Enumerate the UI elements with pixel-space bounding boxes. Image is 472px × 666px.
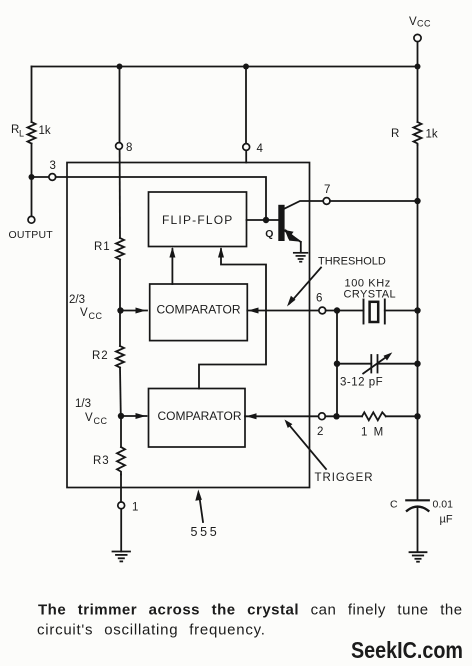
junction dot output node: [29, 174, 35, 180]
wire pin 2 trigger to comparator U2 (arrow into box): [245, 413, 319, 419]
pin 4 terminal: [243, 144, 250, 151]
junction dot 2/3 VCC node: [117, 307, 123, 313]
junction dot rail/pin4: [243, 64, 249, 70]
transistor Q base bar: [278, 205, 284, 241]
junction dot trimmer / right rail: [414, 361, 420, 367]
trimmer capacitor 3-12 pF: [371, 355, 377, 373]
label TRIGGER: [315, 472, 374, 484]
arrow THRESHOLD pointer: [287, 268, 321, 307]
wire pin6 node down to trimmer node: [336, 311, 338, 364]
crystal Y1 100 KHz: [364, 300, 385, 324]
555 IC boundary box: [67, 163, 310, 488]
svg-text:1k: 1k: [39, 125, 51, 137]
resistor R3: [117, 447, 125, 475]
wire output node down to OUTPUT terminal: [31, 177, 33, 216]
svg-text:3-12 pF: 3-12 pF: [340, 377, 383, 389]
svg-text:2/3: 2/3: [69, 294, 85, 306]
pin 7 terminal: [323, 198, 330, 205]
wire comparator U2 output to flip-flop (arrow): [199, 247, 266, 389]
svg-text:0.01: 0.01: [433, 499, 454, 511]
svg-text:circuit's oscillating frequenc: circuit's oscillating frequency.: [37, 622, 266, 639]
label 3-12 pF: [340, 377, 383, 389]
label COMPARATOR (U2): [158, 409, 242, 423]
junction dot crystal / right rail: [414, 307, 420, 313]
label R1: [94, 241, 111, 253]
arrow through trimmer: [363, 352, 392, 373]
svg-text:Q: Q: [265, 228, 273, 240]
svg-text:1: 1: [132, 502, 138, 514]
comparator U1 block: [150, 284, 248, 341]
pin 1 terminal: [118, 502, 125, 509]
svg-text:SeekIC.com: SeekIC.com: [351, 637, 463, 663]
wire pin 3 to flip-flop output node: [56, 177, 266, 220]
svg-text:R1: R1: [94, 241, 111, 253]
svg-text:6: 6: [316, 293, 322, 305]
label R3: [93, 455, 110, 467]
svg-text:V: V: [80, 307, 88, 319]
label uF: [440, 514, 453, 526]
label Q: [265, 228, 273, 240]
label pin 4: [257, 143, 264, 155]
pin 8 terminal: [116, 143, 123, 150]
wire pin 6 to crystal: [326, 310, 364, 312]
wire R3 to pin 1: [120, 475, 122, 503]
svg-text:TRIGGER: TRIGGER: [315, 472, 374, 484]
wire R1 to 2/3 VCC node: [119, 260, 121, 311]
label pin 6: [316, 293, 322, 305]
wire flip-flop output to transistor base: [247, 219, 279, 221]
svg-text:4: 4: [257, 143, 264, 155]
wire pin 1 to ground: [120, 509, 122, 552]
label COMPARATOR (U1): [157, 303, 241, 317]
wire output node to pin 3: [32, 176, 50, 178]
wire pin 7 node to crystal node: [417, 201, 419, 311]
ground symbol (capacitor C): [410, 552, 427, 562]
svg-text:OUTPUT: OUTPUT: [9, 229, 54, 241]
comparator U2 block: [149, 389, 246, 448]
label pin 8: [126, 142, 132, 154]
wire R2 to 1/3 VCC node: [119, 368, 122, 417]
svg-text:The trimmer across the crystal: The trimmer across the crystal can finel…: [38, 602, 463, 619]
wire pin 4 into IC top: [245, 150, 247, 162]
svg-text:µF: µF: [440, 514, 453, 526]
wire top rail to resistor R: [417, 67, 419, 123]
wire comparator U1 output to flip-flop (arrow): [169, 247, 175, 284]
junction dot trimmer branch: [334, 361, 340, 367]
label pin 1: [132, 502, 138, 514]
label 0.01: [433, 499, 454, 511]
svg-text:1/3: 1/3: [75, 398, 91, 410]
svg-text:CRYSTAL: CRYSTAL: [344, 289, 397, 301]
svg-text:CC: CC: [89, 311, 103, 321]
label VCC top right: [409, 16, 431, 29]
svg-text:555: 555: [191, 525, 220, 539]
label THRESHOLD: [318, 256, 386, 268]
label pin 2: [317, 426, 323, 438]
label pin 3: [50, 160, 56, 172]
label OUTPUT: [9, 229, 54, 241]
resistor 1M: [362, 412, 386, 420]
wire 1/3 node to R3: [120, 416, 122, 447]
resistor R1: [116, 238, 124, 260]
svg-text:V: V: [409, 16, 417, 28]
wire capacitor C to ground: [417, 508, 419, 552]
wire trimmer right lead: [378, 363, 418, 365]
resistor R2: [116, 346, 124, 368]
svg-text:THRESHOLD: THRESHOLD: [318, 256, 386, 268]
junction dot crystal / trimmer branch: [334, 307, 340, 313]
capacitor C 0.01 uF: [406, 500, 429, 511]
flip-flop block: [149, 192, 247, 247]
svg-text:CC: CC: [417, 19, 431, 29]
pin 2 terminal: [319, 413, 326, 420]
wire top supply rail: [32, 66, 418, 68]
svg-text:V: V: [85, 412, 93, 424]
svg-text:COMPARATOR: COMPARATOR: [157, 303, 241, 317]
label FLIP-FLOP: [162, 213, 233, 227]
wire trimmer left lead: [337, 363, 371, 365]
junction dot rail/pin8: [117, 64, 123, 70]
svg-text:3: 3: [50, 160, 56, 172]
svg-text:8: 8: [126, 142, 132, 154]
wire crystal node to trimmer node (right rail): [417, 311, 419, 364]
junction dot flip-flop output / pin 3 feedback: [263, 217, 269, 223]
wire pin 2 to 1M: [325, 415, 362, 417]
svg-text:R3: R3: [93, 455, 110, 467]
wire 2/3 node to R2: [119, 311, 121, 347]
junction dot pin 7 / right rail: [414, 198, 420, 204]
svg-text:COMPARATOR: COMPARATOR: [158, 409, 242, 423]
svg-text:FLIP-FLOP: FLIP-FLOP: [162, 213, 233, 227]
wire trimmer node to 1M node (right rail): [417, 364, 419, 417]
wire VCC terminal to top rail: [417, 42, 419, 67]
wire RL to output node: [31, 144, 33, 178]
junction dot 1M / right rail: [414, 413, 420, 419]
wire pin 8 into IC down to R1: [119, 149, 121, 238]
transistor Q collector wire to pin 7: [285, 201, 324, 209]
arrow TRIGGER pointer: [285, 420, 327, 470]
label 555: [191, 525, 220, 539]
wire crystal to right rail: [385, 310, 418, 312]
svg-text:R: R: [391, 128, 399, 140]
svg-text:7: 7: [324, 184, 330, 196]
svg-text:C: C: [390, 499, 398, 511]
ground symbol (pin 1): [113, 552, 131, 562]
power terminal VCC: [414, 34, 421, 41]
pin 6 terminal: [319, 307, 326, 314]
wire 1M node to capacitor C (right rail): [417, 416, 419, 500]
label pin 7: [324, 184, 330, 196]
svg-text:1k: 1k: [426, 129, 438, 141]
wire 2/3 node to comparator U1 input (arrow): [121, 308, 148, 314]
svg-text:CC: CC: [94, 416, 108, 426]
junction dot 1/3 VCC node: [118, 413, 124, 419]
label R2: [92, 350, 109, 362]
wire pin 7 to right rail: [330, 200, 418, 202]
wire top rail to resistor RL: [31, 67, 33, 123]
label C: [390, 499, 398, 511]
ground symbol (transistor Q): [294, 253, 308, 262]
label CRYSTAL: [344, 289, 397, 301]
wire emitter to ground: [300, 242, 302, 253]
resistor RL 1k: [28, 122, 36, 144]
label 1M: [361, 427, 385, 439]
svg-text:L: L: [19, 129, 24, 139]
wire 1M to right rail: [386, 415, 418, 417]
wire pin 6 threshold to comparator U1 (arrow into box): [247, 308, 319, 314]
label 2/3 VCC: [69, 294, 103, 321]
wire 1/3 node to comparator U2 input (arrow): [121, 413, 147, 419]
wire R to pin 7 node: [417, 145, 419, 201]
label R: [391, 128, 399, 140]
junction dot rail/R: [415, 64, 421, 70]
label 1k (RL value): [39, 125, 51, 137]
junction dot pin2 / branch: [333, 413, 339, 419]
transistor Q emitter arrow: [285, 229, 301, 242]
label 100 KHz: [345, 278, 391, 290]
label 1/3 VCC: [75, 398, 108, 426]
resistor R 1k: [414, 122, 422, 145]
arrow from 555 label to box: [195, 490, 203, 523]
label RL: [11, 124, 24, 139]
wire pin 4 to top rail: [245, 67, 247, 144]
pin 3 terminal: [49, 174, 56, 181]
svg-text:R2: R2: [92, 350, 109, 362]
label 1k (R value): [426, 129, 438, 141]
wire pin 8 to top rail: [119, 67, 121, 143]
svg-text:2: 2: [317, 426, 323, 438]
svg-text:1 M: 1 M: [361, 427, 385, 439]
terminal OUTPUT: [28, 216, 35, 223]
wire trimmer node down to pin 2 node: [336, 364, 338, 417]
